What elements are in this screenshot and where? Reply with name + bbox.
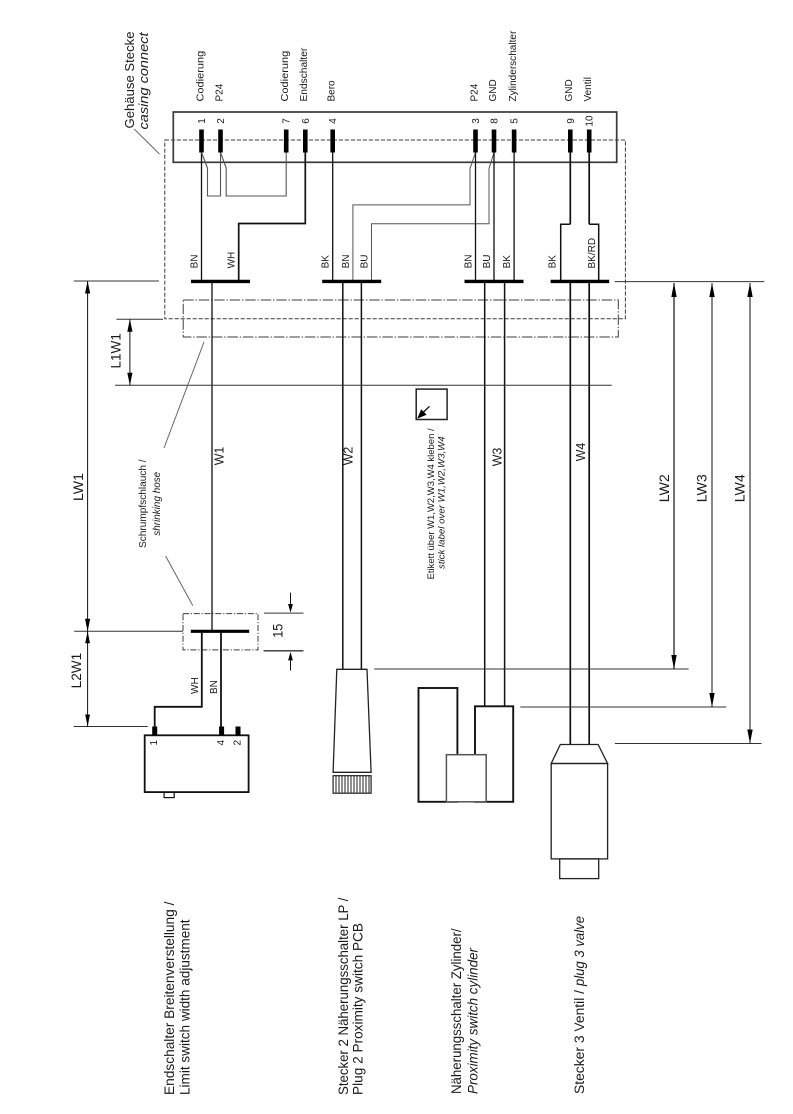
svg-text:BK/RD: BK/RD (587, 238, 598, 269)
dimension L1W1 (129, 319, 131, 385)
extension line at bar level right (615, 281, 765, 283)
svg-text:WH: WH (227, 252, 238, 269)
proximity switch cylinder middle box (446, 755, 486, 802)
wire BN of W1 from pin 1 (201, 153, 203, 281)
svg-text:GND: GND (488, 79, 499, 101)
pin 1 (199, 130, 204, 153)
svg-text:6: 6 (301, 118, 312, 124)
cable end bar W4 (551, 280, 610, 283)
dimension 15 upper arrow (290, 593, 292, 604)
limit switch body (145, 735, 249, 792)
svg-text:GND: GND (564, 79, 575, 101)
pin 4 (330, 130, 335, 153)
svg-text:LW4: LW4 (731, 474, 747, 502)
svg-text:Proximity switch cylinder: Proximity switch cylinder (466, 948, 481, 1094)
svg-text:Ventil: Ventil (583, 77, 594, 101)
wire BN to switch (220, 633, 222, 727)
extension line at shield end (116, 318, 163, 320)
wire BK/RD of W4 from pin 10 (588, 153, 590, 225)
svg-text:10: 10 (585, 115, 596, 127)
svg-text:WH: WH (190, 677, 201, 694)
svg-text:BK: BK (321, 255, 332, 269)
wire WH to switch (155, 633, 202, 727)
cable end bar W3 (465, 280, 524, 283)
svg-text:15: 15 (270, 624, 286, 638)
svg-text:Endschalter Breitenverstellung: Endschalter Breitenverstellung / (162, 901, 177, 1095)
svg-text:5: 5 (510, 118, 521, 124)
pin 5 (512, 130, 517, 153)
svg-text:Plug 2 Proximity switch PCB: Plug 2 Proximity switch PCB (351, 923, 366, 1095)
svg-text:W3: W3 (491, 448, 505, 467)
pin 7 (284, 130, 289, 153)
leader to label zone (164, 342, 204, 448)
plug 2 knurl (333, 776, 371, 794)
svg-text:BU: BU (482, 254, 493, 268)
dimension LW3 (711, 283, 713, 707)
wire BN of W3 from pin 3 (475, 153, 477, 281)
pin 3 (473, 130, 478, 153)
svg-text:stick label over W1,W2,W3,W4: stick label over W1,W2,W3,W4 (436, 436, 447, 569)
W4 thick cable outline (561, 224, 599, 280)
cable end bar W1 (191, 280, 250, 283)
svg-text:BK: BK (548, 255, 559, 269)
casing dashed boundary box (165, 140, 626, 319)
connector housing rectangle (173, 112, 616, 162)
svg-text:9: 9 (566, 118, 577, 124)
svg-text:4: 4 (328, 118, 339, 124)
Etikett note arrow (422, 406, 430, 413)
cable end bar W2 (322, 280, 381, 283)
svg-text:4: 4 (216, 740, 227, 746)
plug 3 valve connector tab (560, 859, 599, 879)
svg-text:1: 1 (149, 740, 160, 746)
svg-text:Stecker 2 Näherungsschalter LP: Stecker 2 Näherungsschalter LP / (336, 897, 351, 1095)
plug 3 valve connector body (551, 764, 607, 859)
svg-text:LW3: LW3 (693, 474, 709, 502)
proximity switch cylinder right box (475, 706, 513, 802)
reference line across cables (115, 384, 612, 386)
svg-text:1: 1 (197, 118, 208, 124)
svg-text:W2: W2 (342, 447, 356, 466)
wire BU of W2 from pin 8 (372, 153, 495, 281)
extension line at valve level (615, 743, 762, 745)
svg-text:W4: W4 (574, 443, 588, 462)
extension line at shrink bar level (74, 630, 183, 632)
jumper wire pin2 to pin7 (221, 153, 287, 197)
dimension LW2 (673, 283, 675, 669)
svg-text:BN: BN (209, 680, 220, 694)
svg-text:Näherungsschalter Zylinder/: Näherungsschalter Zylinder/ (449, 928, 464, 1094)
svg-text:Codierung: Codierung (195, 51, 206, 102)
svg-text:P24: P24 (214, 83, 225, 101)
wire BN of W2 from pin 3 (353, 153, 476, 281)
cable end bar W1 lower (in shrink hose) (191, 630, 249, 633)
extension line at cylinder level (520, 706, 726, 708)
dimension L2W1 (87, 631, 89, 726)
plug 3 valve connector cap (551, 745, 607, 764)
svg-text:BN: BN (464, 254, 475, 268)
leader to shrink hose box (166, 556, 193, 606)
svg-text:Zylinderschalter: Zylinderschalter (508, 30, 519, 101)
jumper wire pin1 to pin2 (202, 153, 221, 197)
proximity switch cylinder left box (419, 688, 458, 802)
switch terminal 1 (152, 727, 157, 736)
cable W3 sheath (484, 283, 486, 707)
cable W2 sheath (342, 283, 344, 669)
svg-text:Codierung: Codierung (280, 51, 291, 102)
svg-text:BK: BK (502, 255, 513, 269)
pin 10 (587, 130, 592, 153)
svg-text:Etikett über W1,W2,W3,W4 klebe: Etikett über W1,W2,W3,W4 kleben / (426, 428, 437, 579)
svg-text:Gehäuse Stecke: Gehäuse Stecke (123, 31, 137, 128)
svg-text:Limit switch width adjustment: Limit switch width adjustment (178, 919, 193, 1095)
svg-text:LW2: LW2 (656, 474, 672, 502)
svg-text:Schrumpfschlauch /: Schrumpfschlauch / (138, 459, 149, 548)
wire BK of W2 from pin 4 (332, 153, 334, 281)
cable W1 (211, 283, 213, 630)
svg-text:shrinking hose: shrinking hose (152, 471, 163, 535)
dimension LW1 (87, 281, 89, 631)
svg-text:BN: BN (341, 254, 352, 268)
leader line to casing box (134, 129, 159, 154)
plug 2 M8 connector body (333, 669, 371, 772)
svg-text:plug 3 valve: plug 3 valve (572, 916, 587, 987)
svg-text:L1W1: L1W1 (107, 333, 123, 369)
svg-text:2: 2 (216, 118, 227, 124)
svg-text:8: 8 (490, 118, 501, 124)
svg-text:Stecker 3 Ventil /: Stecker 3 Ventil / (572, 990, 587, 1094)
pin 9 (568, 130, 573, 153)
wire BK of W3 from pin 5 (513, 153, 515, 281)
svg-text:BU: BU (360, 254, 371, 268)
extension line at switch top level (74, 726, 148, 728)
svg-text:BN: BN (190, 254, 201, 268)
pin 6 (303, 130, 308, 153)
svg-text:Endschalter: Endschalter (299, 47, 310, 101)
wire BU of W3 from pin 8 (493, 153, 495, 281)
svg-text:W1: W1 (212, 447, 226, 466)
shrink hose dashed box (183, 614, 258, 650)
dimension LW4 (749, 283, 751, 744)
extension line at plug2 level (374, 668, 688, 670)
svg-text:Bero: Bero (327, 80, 338, 102)
svg-text:casing connect: casing connect (137, 32, 151, 130)
switch terminal 2 (236, 727, 241, 736)
Etikett note box (416, 389, 447, 419)
cable W4 wires (569, 283, 571, 745)
pin 8 (492, 130, 497, 153)
svg-text:P24: P24 (469, 83, 480, 101)
svg-text:7: 7 (282, 118, 293, 124)
switch terminal 4 (219, 727, 224, 736)
label area dashed box (Etikett zone) (183, 300, 618, 337)
pin 2 (218, 130, 223, 153)
svg-text:3: 3 (471, 118, 482, 124)
switch bottom tab (164, 792, 174, 798)
dimension 15 lower arrow (290, 660, 292, 670)
svg-text:2: 2 (232, 740, 243, 746)
svg-text:L2W1: L2W1 (68, 653, 84, 689)
wire WH of W1 from pin 6 (239, 153, 306, 281)
extension line at bar level left (74, 280, 159, 282)
wire BK of W4 from pin 9 (569, 153, 571, 225)
svg-text:LW1: LW1 (70, 473, 86, 501)
